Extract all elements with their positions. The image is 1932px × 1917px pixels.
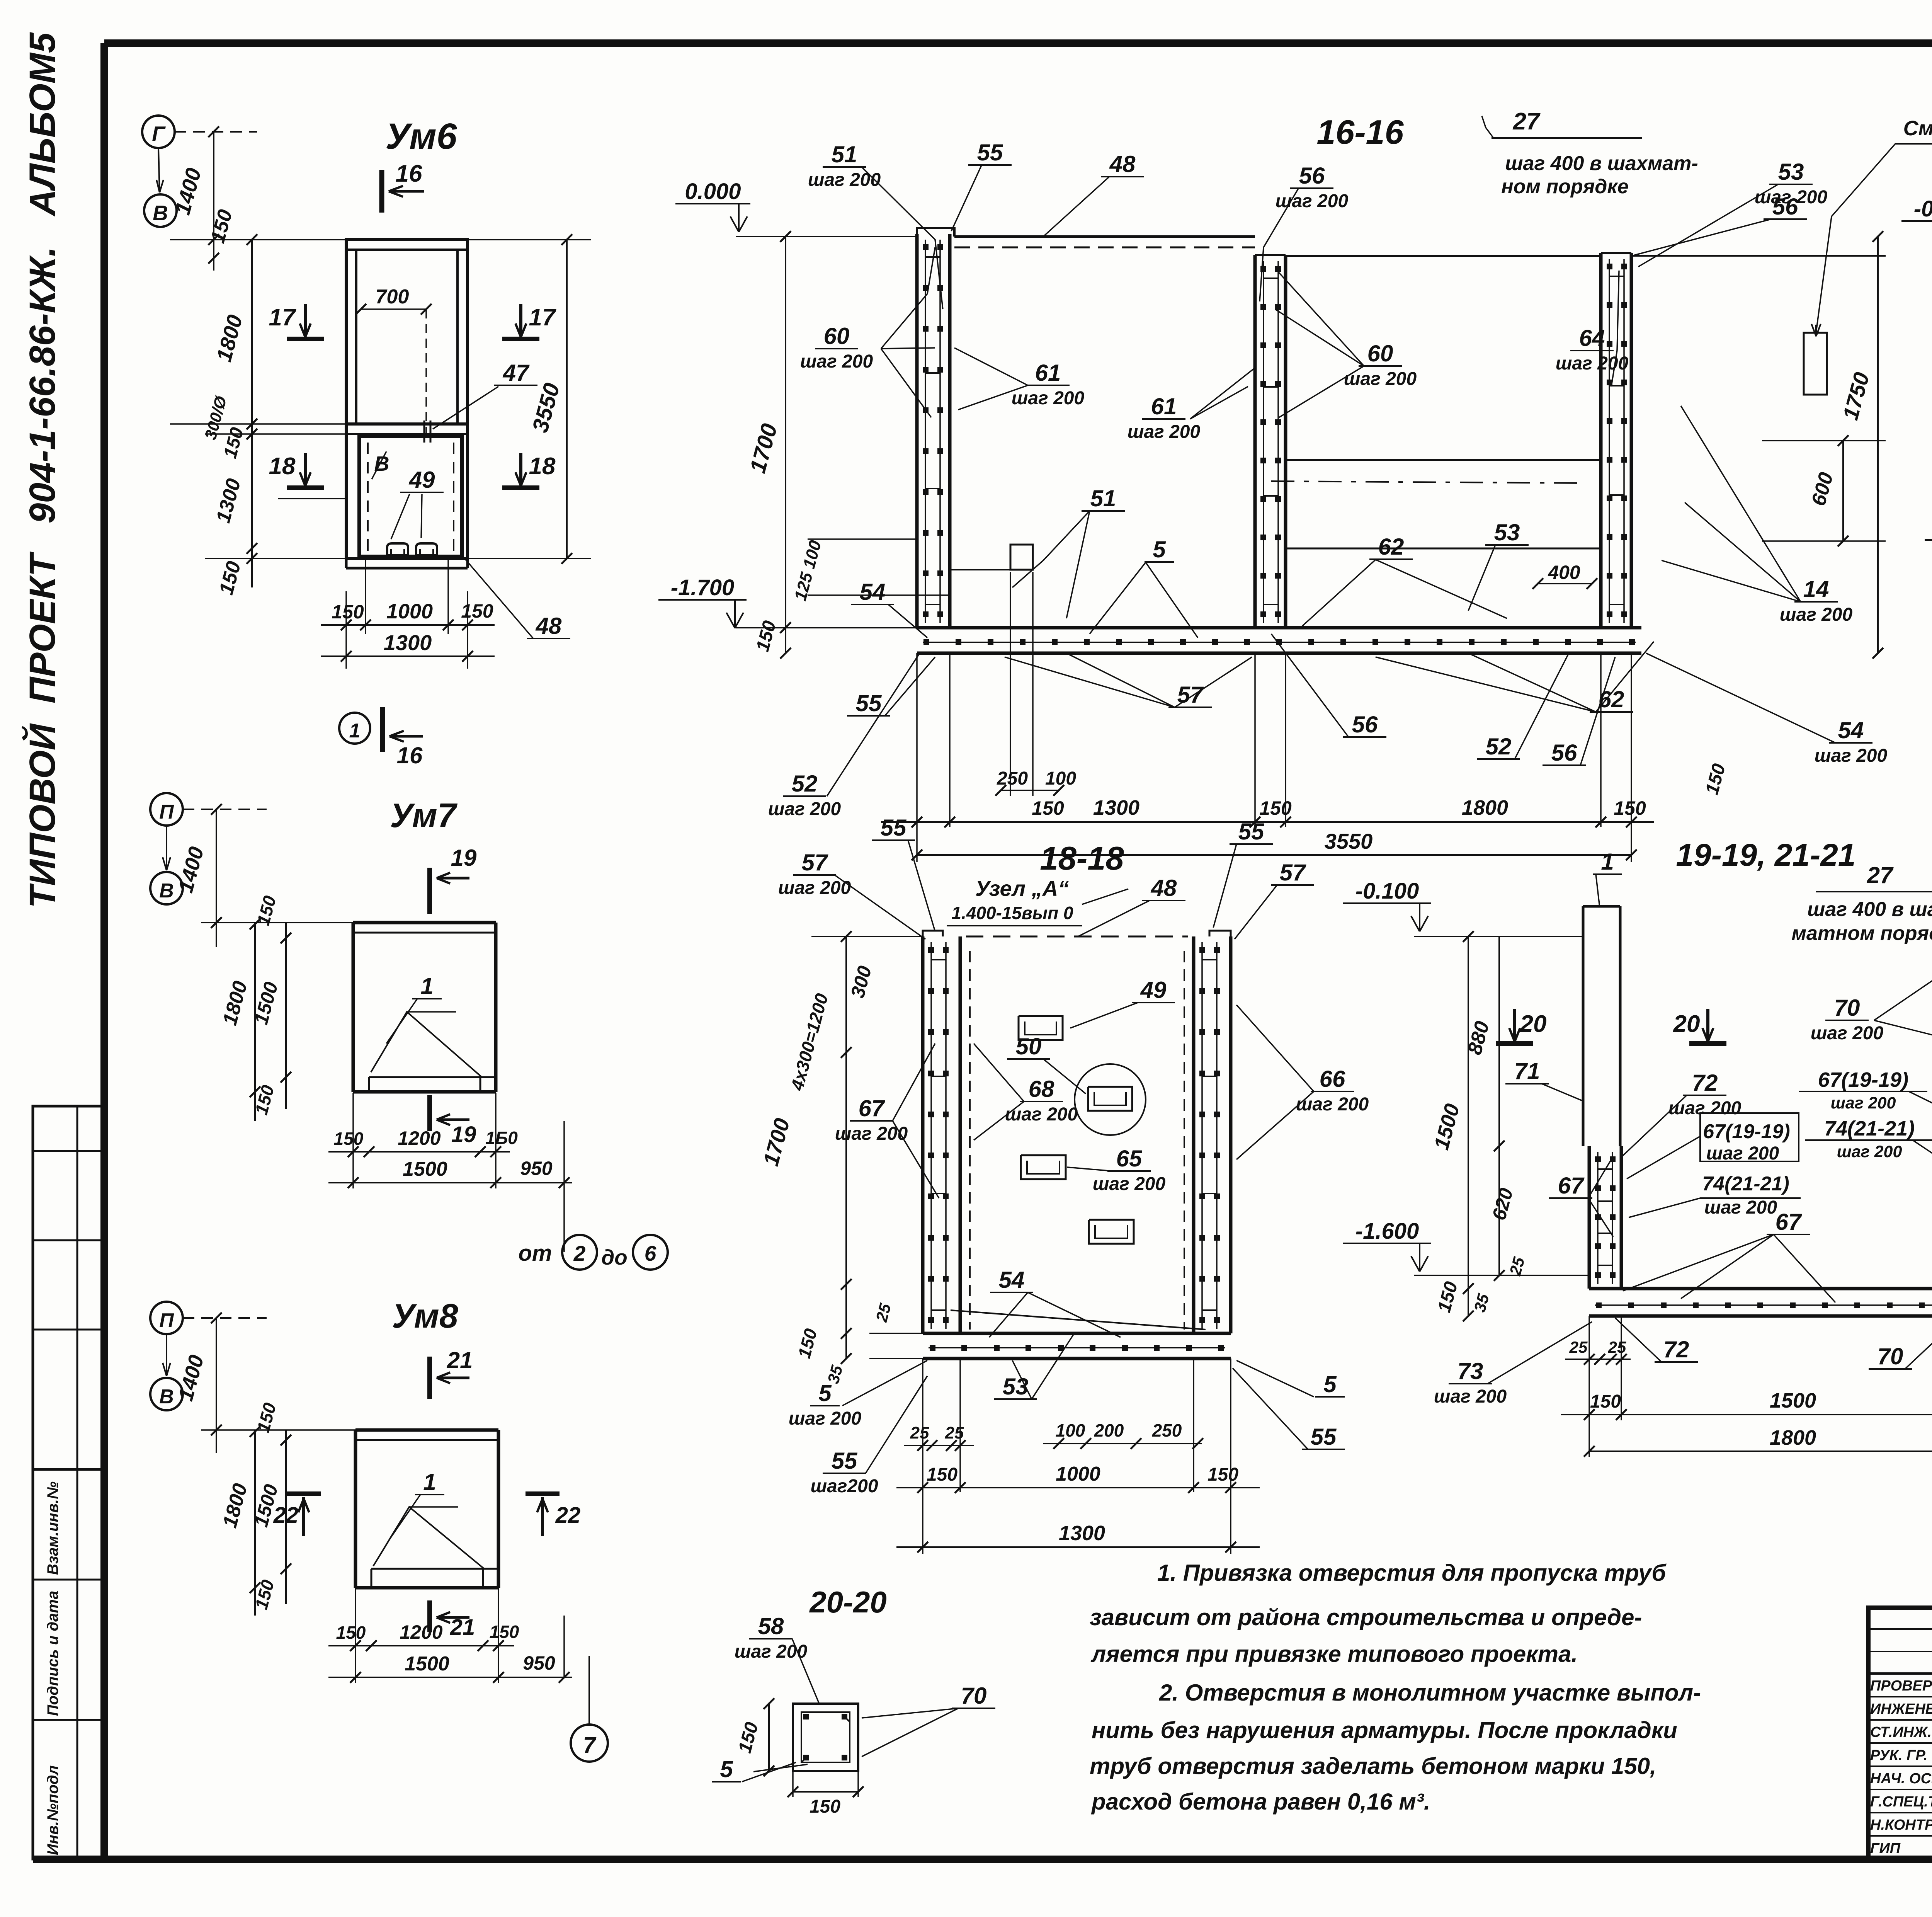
svg-text:27: 27 (1867, 862, 1894, 888)
cut 21 top (427, 1357, 432, 1399)
svg-text:61: 61 (1035, 360, 1061, 386)
left dims 18-18 (845, 936, 847, 1359)
svg-text:74(21-21): 74(21-21) (1702, 1173, 1789, 1195)
svg-text:48: 48 (1151, 875, 1177, 901)
dim 1400 (216, 809, 217, 947)
svg-text:1: 1 (1601, 849, 1614, 875)
svg-text:57: 57 (1280, 860, 1306, 885)
svg-text:0.000: 0.000 (685, 179, 741, 204)
svg-text:1200: 1200 (400, 1621, 442, 1643)
dims 20-20 (768, 1704, 770, 1771)
left wall 18-18 (921, 936, 925, 1333)
svg-text:Узел „А“: Узел „А“ (975, 876, 1069, 901)
svg-text:67: 67 (1558, 1173, 1585, 1199)
svg-text:В: В (374, 452, 389, 475)
svg-text:П: П (159, 1309, 174, 1332)
svg-text:шаг 200: шаг 200 (1780, 604, 1853, 625)
left dims Um6 (251, 240, 253, 587)
svg-text:1.400-15вып 0: 1.400-15вып 0 (951, 903, 1073, 923)
svg-text:шаг 200: шаг 200 (778, 878, 851, 898)
svg-text:1800: 1800 (1770, 1426, 1816, 1449)
inner slope lines (371, 1012, 482, 1077)
svg-text:П: П (159, 801, 174, 823)
svg-text:150: 150 (332, 601, 364, 623)
svg-text:250: 250 (1152, 1420, 1182, 1440)
svg-text:См примечание: См примечание (1903, 117, 1932, 140)
dim 1700 left (785, 237, 786, 653)
svg-text:шаг 200: шаг 200 (808, 170, 881, 190)
svg-text:1200: 1200 (398, 1127, 440, 1149)
svg-text:РУК. ГР.: РУК. ГР. (1870, 1747, 1928, 1764)
svg-text:3550: 3550 (1325, 829, 1373, 853)
right wall 16-16 (1599, 253, 1603, 628)
svg-text:шаг 200: шаг 200 (1128, 422, 1201, 442)
svg-text:47: 47 (503, 360, 530, 386)
svg-text:150: 150 (1259, 797, 1292, 819)
svg-text:Подпись и дата: Подпись и дата (44, 1591, 61, 1716)
svg-text:5: 5 (720, 1756, 733, 1782)
svg-text:1: 1 (423, 1469, 436, 1495)
small dims 250 100 (1001, 790, 1059, 791)
svg-text:5: 5 (1323, 1371, 1337, 1397)
bottom slab (917, 626, 1641, 630)
svg-text:56: 56 (1551, 740, 1577, 766)
svg-text:16: 16 (396, 160, 422, 187)
svg-text:шаг 200: шаг 200 (1668, 1098, 1742, 1119)
svg-text:1: 1 (349, 720, 361, 742)
svg-text:57: 57 (802, 850, 828, 875)
svg-text:1: 1 (420, 973, 433, 999)
section marks 20 (1496, 1041, 1533, 1046)
svg-text:-0 100: -0 100 (1914, 196, 1932, 221)
svg-text:55: 55 (856, 690, 882, 716)
svg-text:16-16: 16-16 (1316, 113, 1404, 151)
svg-text:7: 7 (583, 1733, 597, 1758)
bubble 1 + cut 16 bottom (339, 713, 370, 744)
svg-text:48: 48 (1109, 151, 1136, 177)
svg-text:расход бетона равен 0,16 м³.: расход бетона равен 0,16 м³. (1091, 1789, 1430, 1815)
svg-text:100: 100 (1056, 1420, 1085, 1440)
svg-text:19: 19 (451, 845, 477, 871)
svg-text:20-20: 20-20 (809, 1585, 887, 1619)
svg-text:60: 60 (1367, 340, 1393, 366)
svg-text:Ум7: Ум7 (390, 796, 458, 834)
bottom slab 18-18 (923, 1332, 1231, 1335)
svg-text:53: 53 (1494, 519, 1520, 545)
dim 1750/600 (1877, 237, 1879, 653)
svg-text:НАЧ. ОСН: НАЧ. ОСН (1870, 1771, 1932, 1787)
svg-text:150: 150 (461, 600, 493, 622)
svg-text:71: 71 (1514, 1058, 1540, 1084)
svg-text:18-18: 18-18 (1040, 840, 1124, 877)
svg-text:шаг 200: шаг 200 (1434, 1386, 1507, 1407)
middle wall (1253, 255, 1257, 628)
title block (1868, 1608, 1932, 1859)
ot 2 do 6 (519, 1235, 668, 1270)
svg-text:ИНЖЕНЕР: ИНЖЕНЕР (1870, 1701, 1932, 1717)
svg-text:70: 70 (961, 1683, 987, 1709)
svg-text:шаг 400 в шахмат-: шаг 400 в шахмат- (1505, 152, 1698, 175)
top slab 48 (954, 235, 1255, 238)
svg-text:67: 67 (859, 1095, 885, 1121)
svg-text:150: 150 (927, 1464, 957, 1485)
svg-text:21: 21 (447, 1347, 473, 1373)
svg-text:ТИПОВОЙ ПРОЕКТ 904-1-66.86-: ТИПОВОЙ ПРОЕКТ 904-1-66.86-КЖ. АЛЬБОМ5 (21, 32, 63, 908)
item 47 marks on mid wall (423, 421, 425, 443)
svg-text:19-19, 21-21: 19-19, 21-21 (1676, 838, 1855, 873)
svg-text:Ум6: Ум6 (385, 116, 457, 157)
svg-text:-0.100: -0.100 (1355, 878, 1419, 904)
plan Um6 (142, 116, 591, 768)
svg-text:1000: 1000 (1056, 1463, 1100, 1485)
svg-text:25: 25 (1569, 1338, 1588, 1356)
svg-text:18: 18 (269, 453, 296, 480)
svg-text:950: 950 (523, 1652, 555, 1674)
svg-text:200: 200 (1094, 1420, 1124, 1440)
svg-text:1500: 1500 (1770, 1389, 1816, 1412)
left wall 16-16 (915, 234, 919, 628)
svg-text:от: от (519, 1241, 552, 1266)
svg-text:1500: 1500 (405, 1653, 449, 1675)
svg-text:СТ.ИНЖ.: СТ.ИНЖ. (1870, 1724, 1932, 1740)
cut 21 bottom (427, 1600, 432, 1632)
svg-text:1000: 1000 (386, 600, 433, 623)
section arrows 18 (287, 485, 324, 490)
svg-text:1800: 1800 (1462, 796, 1508, 819)
section 16-16 (658, 108, 1886, 862)
svg-text:64: 64 (1579, 325, 1605, 351)
svg-text:1300: 1300 (384, 630, 432, 655)
svg-text:150: 150 (490, 1622, 519, 1642)
svg-text:1300: 1300 (1093, 796, 1139, 819)
section 18-18 (759, 815, 1369, 1554)
svg-text:56: 56 (1299, 163, 1325, 189)
svg-text:нить без нарушения арматуры. П: нить без нарушения арматуры. После прокл… (1092, 1717, 1677, 1743)
svg-text:62: 62 (1378, 534, 1404, 560)
svg-text:Взам.инв.№: Взам.инв.№ (44, 1481, 61, 1575)
left dims Um7 (254, 923, 256, 1121)
svg-text:73: 73 (1458, 1358, 1483, 1384)
svg-text:72: 72 (1692, 1070, 1718, 1096)
svg-text:шаг 200: шаг 200 (1815, 746, 1888, 766)
svg-text:шаг 200: шаг 200 (789, 1408, 862, 1429)
small dim 300 (278, 498, 346, 499)
svg-text:до: до (601, 1245, 628, 1269)
svg-text:67(19-19): 67(19-19) (1703, 1120, 1790, 1143)
svg-text:25: 25 (910, 1423, 929, 1442)
svg-text:В: В (159, 880, 174, 902)
svg-text:ГИП: ГИП (1870, 1840, 1901, 1857)
svg-text:шаг 200: шаг 200 (800, 351, 873, 372)
svg-text:1500: 1500 (403, 1158, 447, 1180)
cut 19 bottom (427, 1095, 432, 1131)
svg-text:150: 150 (1590, 1391, 1621, 1412)
svg-text:22: 22 (555, 1503, 581, 1528)
svg-text:250: 250 (997, 768, 1028, 789)
svg-text:1Б0: 1Б0 (485, 1128, 518, 1148)
svg-text:матном порядке: матном порядке (1791, 922, 1932, 945)
bottom slab 19-19 (1589, 1287, 1932, 1290)
svg-text:шаг 200: шаг 200 (1706, 1143, 1779, 1164)
svg-text:74(21-21): 74(21-21) (1824, 1117, 1915, 1140)
section 20-20 (712, 1585, 995, 1817)
bottom dims 18-18 (904, 1445, 974, 1446)
svg-text:шаг 200: шаг 200 (1831, 1094, 1896, 1112)
svg-text:-1.600: -1.600 (1355, 1219, 1419, 1244)
cut mark 16 top (379, 170, 384, 213)
bottom dims Um6 (345, 591, 347, 669)
svg-text:48: 48 (536, 613, 562, 639)
svg-text:65: 65 (1116, 1146, 1143, 1171)
svg-text:150: 150 (334, 1129, 364, 1149)
svg-text:68: 68 (1029, 1076, 1054, 1102)
svg-text:25: 25 (945, 1423, 964, 1442)
channel symbols (1019, 1016, 1063, 1040)
svg-text:шаг 200: шаг 200 (1837, 1142, 1902, 1161)
section arrows 22 (287, 1491, 321, 1496)
svg-text:1. Привязка отверстия для проп: 1. Привязка отверстия для пропуска труб (1157, 1560, 1667, 1586)
svg-text:В: В (153, 201, 168, 225)
right dim 3550 (566, 240, 568, 558)
svg-text:53: 53 (1778, 159, 1804, 185)
svg-text:54: 54 (860, 579, 886, 605)
svg-text:19: 19 (451, 1122, 476, 1147)
right chamber joint lines (1286, 459, 1601, 461)
svg-text:5: 5 (1153, 536, 1166, 562)
left wall in ground (1588, 1146, 1591, 1289)
svg-text:100: 100 (1045, 768, 1076, 789)
svg-text:1300: 1300 (1059, 1522, 1105, 1545)
block 51 in left chamber (1010, 545, 1033, 570)
svg-text:Н.КОНТР.: Н.КОНТР. (1870, 1817, 1932, 1833)
svg-text:шаг 200: шаг 200 (1704, 1197, 1777, 1218)
svg-text:55: 55 (1238, 819, 1265, 844)
svg-text:150: 150 (336, 1622, 366, 1643)
left dims 19-19 (1468, 936, 1469, 1316)
svg-text:20: 20 (1520, 1011, 1547, 1037)
svg-text:55: 55 (881, 815, 907, 841)
svg-text:17: 17 (269, 304, 296, 331)
dim 400 (1538, 583, 1592, 584)
svg-text:ном порядке: ном порядке (1501, 175, 1628, 198)
boxed 67(19-19) (1700, 1113, 1799, 1161)
bottom dim row 16-16 (881, 821, 1654, 823)
svg-text:шаг 400 в шах-: шаг 400 в шах- (1807, 898, 1932, 921)
svg-text:шаг200: шаг200 (810, 1476, 878, 1496)
svg-text:72: 72 (1663, 1336, 1689, 1362)
svg-text:17: 17 (529, 304, 556, 331)
svg-text:700: 700 (376, 286, 409, 308)
svg-text:150: 150 (1614, 797, 1646, 819)
svg-text:ляется при привязке типового п: ляется при привязке типового проекта. (1090, 1641, 1578, 1667)
inner slopes (373, 1507, 484, 1569)
svg-text:150: 150 (1207, 1464, 1238, 1485)
svg-text:60: 60 (824, 323, 850, 349)
dim 1400 (216, 1318, 217, 1453)
svg-text:16: 16 (397, 742, 423, 768)
svg-text:шаг 200: шаг 200 (1093, 1174, 1166, 1194)
bottom dims Um7 (328, 1151, 510, 1153)
svg-text:61: 61 (1151, 393, 1177, 419)
svg-text:Инв.№подл: Инв.№подл (44, 1765, 61, 1855)
note references right of 16-16 (1646, 117, 1932, 797)
notes text (1090, 1560, 1701, 1815)
svg-text:зависит от района строительств: зависит от района строительства и опреде… (1090, 1604, 1642, 1630)
svg-text:27: 27 (1513, 108, 1541, 135)
right chamber top edge (1286, 255, 1601, 257)
svg-text:55: 55 (977, 140, 1003, 165)
svg-text:Ум8: Ум8 (392, 1297, 458, 1335)
section arrows 17 (287, 337, 324, 341)
grid bubble Г (142, 116, 175, 148)
bottom dims Um8 (328, 1645, 514, 1646)
svg-text:шаг 200: шаг 200 (1012, 388, 1085, 409)
section 17-17 (1925, 113, 1932, 831)
svg-text:51: 51 (832, 141, 857, 167)
svg-text:150: 150 (1032, 797, 1064, 819)
cut 19 top (427, 868, 432, 914)
right wall 18-18 (1192, 936, 1196, 1333)
svg-text:49: 49 (1140, 977, 1167, 1003)
embedded channels 49 (387, 543, 408, 555)
svg-text:49: 49 (409, 467, 435, 493)
grid bubble В (144, 194, 177, 227)
svg-text:51: 51 (1090, 485, 1116, 511)
svg-text:56: 56 (1352, 712, 1378, 737)
detail circle A (1075, 1064, 1146, 1135)
dim 700 inside (361, 308, 426, 310)
svg-text:труб отверстия заделать бетоно: труб отверстия заделать бетоном марки 15… (1090, 1753, 1656, 1779)
svg-text:2. Отверстия в монолитном учас: 2. Отверстия в монолитном участке выпол- (1159, 1680, 1701, 1706)
svg-text:шаг 200: шаг 200 (768, 799, 841, 819)
svg-text:56: 56 (1772, 194, 1798, 220)
Um8 outline (355, 1428, 498, 1432)
left wall above grade (1582, 906, 1585, 1146)
svg-text:25: 25 (1608, 1338, 1626, 1356)
svg-text:55: 55 (832, 1448, 858, 1474)
small niche rect (1804, 333, 1827, 395)
dim 1400/150 left of Um6 (213, 132, 214, 271)
svg-text:400: 400 (1548, 562, 1580, 583)
svg-text:5: 5 (818, 1380, 832, 1406)
svg-text:55: 55 (1311, 1424, 1337, 1450)
svg-text:52: 52 (792, 771, 818, 797)
bottom dims 19-19 (1565, 1359, 1631, 1360)
svg-text:21: 21 (450, 1615, 475, 1640)
top edge line (966, 936, 1188, 938)
svg-text:70: 70 (1834, 995, 1860, 1021)
svg-text:66: 66 (1320, 1066, 1345, 1092)
svg-text:6: 6 (645, 1241, 656, 1265)
svg-text:50: 50 (1016, 1033, 1042, 1059)
svg-text:150: 150 (810, 1796, 840, 1817)
svg-text:54: 54 (1838, 717, 1864, 743)
svg-text:20: 20 (1673, 1011, 1700, 1037)
svg-text:52: 52 (1486, 734, 1512, 759)
svg-text:2: 2 (573, 1241, 586, 1265)
section 19-19 21-21 (1343, 838, 1932, 1457)
svg-text:53: 53 (1003, 1374, 1029, 1399)
Um7 outline (353, 921, 496, 924)
svg-text:18: 18 (529, 453, 556, 480)
svg-text:58: 58 (758, 1613, 784, 1639)
left margin stamp tables (33, 1106, 105, 1859)
svg-text:-1.700: -1.700 (671, 575, 734, 600)
svg-text:70: 70 (1878, 1343, 1903, 1369)
svg-text:Г.СПЕЦ.ТО: Г.СПЕЦ.ТО (1870, 1794, 1932, 1810)
svg-text:14: 14 (1803, 576, 1829, 602)
svg-text:Г: Г (152, 122, 166, 146)
bubble 7 (571, 1656, 608, 1762)
svg-text:950: 950 (520, 1158, 553, 1179)
svg-text:67(19-19): 67(19-19) (1818, 1068, 1908, 1091)
plan Um7 (150, 793, 572, 1252)
svg-text:ПРОВЕРИЛ: ПРОВЕРИЛ (1870, 1678, 1932, 1694)
left vertical title text (21, 32, 63, 908)
svg-text:шаг 200: шаг 200 (735, 1641, 808, 1662)
Um6 outline (346, 240, 468, 558)
svg-text:В: В (159, 1386, 174, 1408)
plan Um8 (150, 1297, 580, 1683)
left dims Um8 (254, 1430, 256, 1616)
svg-text:54: 54 (999, 1267, 1025, 1293)
svg-text:67: 67 (1776, 1209, 1802, 1235)
inner formwork dashed (969, 951, 971, 1330)
svg-text:шаг 200: шаг 200 (1556, 353, 1629, 374)
svg-text:шаг 200: шаг 200 (1811, 1023, 1884, 1044)
